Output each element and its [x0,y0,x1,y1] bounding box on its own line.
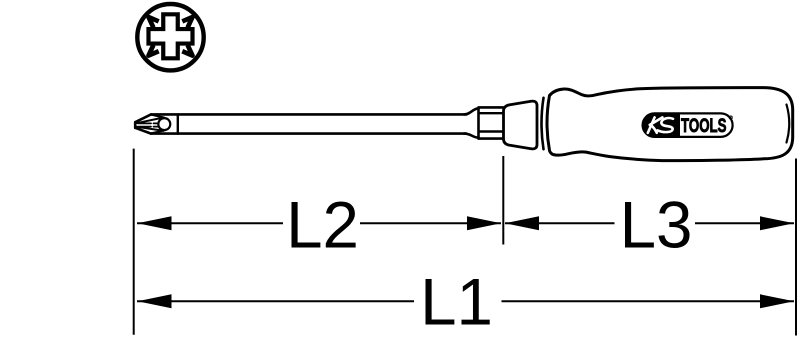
svg-text:L1: L1 [420,265,493,338]
svg-text:®: ® [729,115,733,122]
svg-text:L2: L2 [286,188,359,261]
svg-text:L3: L3 [620,188,693,261]
svg-text:TOOLS: TOOLS [681,115,727,137]
